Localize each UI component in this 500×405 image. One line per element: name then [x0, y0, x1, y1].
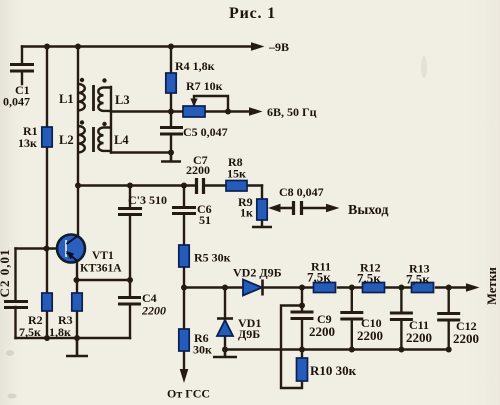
- arrow Vyhod output: [326, 204, 340, 213]
- capacitor C5 0,047 plates: [160, 128, 183, 135]
- node mid rail / C6: [181, 183, 187, 189]
- svg-text:2200: 2200: [453, 331, 479, 346]
- wire R13 to output arrow: [436, 286, 467, 288]
- svg-text:VT1: VT1: [92, 250, 114, 262]
- wire bottom-left rail: [16, 337, 131, 339]
- svg-text:L1: L1: [59, 92, 74, 106]
- wire VD2 to R11: [263, 286, 313, 288]
- arrow 6V 50Hz: [249, 107, 263, 116]
- ground at VD1: [213, 350, 237, 358]
- svg-text:Рис. 1: Рис. 1: [229, 5, 276, 22]
- wire C10 column: [351, 288, 353, 350]
- svg-text:13к: 13к: [18, 136, 37, 150]
- svg-text:R7 10к: R7 10к: [186, 79, 223, 93]
- resistor R2: [42, 293, 52, 311]
- node rail / C9-R10: [299, 347, 305, 353]
- svg-text:7,5к: 7,5к: [19, 325, 41, 339]
- node top rail / primary spine: [75, 44, 81, 50]
- svg-text:–9В: –9В: [268, 40, 289, 54]
- svg-text:С2 0,01: С2 0,01: [0, 249, 12, 298]
- svg-text:0,047: 0,047: [3, 95, 30, 109]
- wire L4 bottom to C5: [111, 151, 171, 153]
- svg-text:L2: L2: [59, 133, 74, 147]
- node bottom rail / R2: [44, 335, 50, 341]
- svg-text:2200: 2200: [141, 304, 166, 318]
- scan speck: [421, 56, 427, 78]
- svg-text:Метки: Метки: [485, 267, 499, 305]
- inductor L3 winding: [98, 88, 111, 111]
- capacitor C1 0,047 plates: [10, 65, 34, 72]
- transformer core lower: [92, 127, 95, 152]
- capacitor C6 51 plates: [172, 208, 196, 214]
- wire collector to C4 node: [76, 279, 130, 281]
- svg-text:R5 30к: R5 30к: [194, 251, 231, 265]
- wire base lead: [16, 247, 58, 249]
- node mid rail / C'3: [127, 183, 133, 189]
- capacitor C12 2200 plates: [437, 314, 460, 321]
- svg-text:VD2 Д9Б: VD2 Д9Б: [233, 266, 282, 280]
- resistor R1: [42, 127, 52, 147]
- node tap wire / R7 wiper: [225, 109, 231, 115]
- wire tap to 6V output: [111, 110, 250, 112]
- wire C12 column: [448, 288, 450, 350]
- svg-text:7,5к: 7,5к: [307, 270, 331, 285]
- inductor L1 winding: [78, 84, 85, 110]
- resistor R5: [179, 245, 189, 267]
- svg-text:С5 0,047: С5 0,047: [183, 125, 228, 139]
- resistor R11: [314, 283, 336, 293]
- capacitor C9 2200 plates: [291, 312, 314, 319]
- wire R11 to R12: [338, 286, 362, 288]
- svg-text:КТ361А: КТ361А: [80, 263, 122, 275]
- wire R10 loop: [281, 306, 302, 389]
- wire R9 wiper to C8: [280, 207, 327, 209]
- resistor R6: [179, 329, 189, 351]
- wire collector lead: [76, 261, 78, 280]
- node top rail / R4: [168, 44, 174, 50]
- wire C'3 column: [129, 186, 131, 281]
- node collector / R3: [74, 277, 80, 283]
- svg-text:7,5к: 7,5к: [357, 271, 381, 286]
- node tap wire / R4-C5: [168, 109, 174, 115]
- capacitor C8 0,047 plates (series): [294, 201, 302, 215]
- resistor R4: [166, 73, 176, 93]
- svg-text:R10 30к: R10 30к: [310, 363, 357, 378]
- capacitor C10 2200 plates: [340, 313, 363, 320]
- svg-text:L4: L4: [114, 133, 129, 147]
- svg-text:6В, 50 Гц: 6В, 50 Гц: [267, 105, 317, 119]
- wire R12 to R13: [386, 286, 411, 288]
- wire L3-L4 secondary spine: [110, 87, 112, 153]
- node C11 top: [398, 285, 404, 291]
- node R5-R6-VD2: [181, 285, 187, 291]
- svg-text:7,5к: 7,5к: [406, 272, 430, 287]
- ground at R9: [252, 226, 272, 229]
- wire VD1 column: [224, 288, 226, 350]
- node rail / C12: [446, 347, 452, 353]
- wire C9 column: [301, 288, 303, 350]
- svg-text:Выход: Выход: [348, 203, 388, 218]
- node base / R1-R2: [44, 246, 50, 252]
- resistor R3: [72, 293, 82, 311]
- arrow -9V: [251, 42, 265, 51]
- inductor L4 winding: [98, 128, 111, 151]
- wire C7 to R8: [205, 184, 262, 186]
- node bottom rail / R3 ground: [74, 335, 80, 341]
- node C5-L4 ground: [168, 150, 174, 156]
- resistor R10: [297, 358, 308, 381]
- wire R8 corner down to R9: [261, 186, 263, 200]
- phase dot L1: [80, 78, 84, 82]
- svg-text:2200: 2200: [309, 324, 335, 339]
- svg-text:1,8к: 1,8к: [49, 325, 71, 339]
- svg-text:2200: 2200: [186, 163, 210, 177]
- capacitor C7 2200 plates (series): [197, 178, 204, 194]
- wire top rail: [22, 45, 252, 47]
- wire C1 column: [21, 47, 23, 85]
- node collector wire / C'3-C4: [127, 277, 133, 283]
- wire C5 column: [170, 112, 172, 153]
- node C12 top: [446, 285, 452, 291]
- svg-text:R4 1,8к: R4 1,8к: [175, 59, 215, 73]
- node C10 top: [349, 285, 355, 291]
- node top rail / R1: [44, 44, 50, 50]
- resistor R7 (trimmer): [183, 106, 205, 117]
- scan speck: [8, 394, 17, 399]
- phase dot L4: [102, 122, 106, 126]
- capacitor C4 2200 plates: [118, 298, 141, 305]
- wire C2 column: [14, 249, 16, 339]
- diode VD1: [217, 319, 233, 337]
- svg-text:15к: 15к: [227, 167, 246, 181]
- scan speck: [6, 350, 14, 356]
- node VD1 branch: [222, 285, 228, 291]
- arrow Ot GSS (down): [180, 369, 189, 383]
- svg-text:Д9Б: Д9Б: [238, 327, 260, 341]
- resistor R12: [363, 283, 385, 293]
- arrow Metki: [466, 283, 480, 292]
- capacitor C11 2200 plates: [390, 313, 413, 320]
- wire R3 column: [76, 280, 78, 338]
- ground at R3 (bottom-left): [66, 338, 88, 356]
- svg-text:От ГСС: От ГСС: [167, 387, 210, 401]
- svg-text:С'3 510: С'3 510: [128, 193, 167, 207]
- capacitor C'3 510 plates: [118, 209, 142, 215]
- trimmer R7 wiper arrowhead: [190, 99, 197, 107]
- phase dot L3: [102, 78, 106, 82]
- svg-text:L3: L3: [115, 93, 130, 107]
- svg-text:С8 0,047: С8 0,047: [279, 185, 324, 199]
- wire bottom-right rail: [225, 348, 449, 350]
- transformer core upper: [92, 85, 95, 111]
- wire transformer primary spine: [77, 47, 79, 237]
- wire C4 column: [129, 280, 131, 338]
- transistor VT1 KT361A: [57, 235, 85, 263]
- wire mid rail to C7: [78, 184, 195, 186]
- node rail / C10: [349, 347, 355, 353]
- phase dot L2: [80, 120, 84, 124]
- resistor R9 (trimmer): [257, 199, 267, 220]
- node mid rail / spine: [75, 183, 81, 189]
- wire R9 bottom stub: [261, 220, 263, 226]
- capacitor C2 0,01 plates: [4, 302, 28, 308]
- wire node to VD2: [184, 286, 243, 288]
- node rail / C11: [398, 347, 404, 353]
- node rail / VD1: [222, 347, 228, 353]
- wire C6-R5-R6 column: [183, 186, 185, 371]
- svg-text:51: 51: [199, 213, 211, 227]
- node C9 top: [299, 285, 305, 291]
- svg-text:1к: 1к: [240, 206, 253, 220]
- wire C11 column: [400, 288, 402, 350]
- trimmer R9 wiper arrowhead: [268, 204, 281, 212]
- svg-text:30к: 30к: [193, 343, 212, 357]
- svg-text:2200: 2200: [406, 330, 432, 345]
- diode VD2: [243, 280, 263, 296]
- wire R4 column: [170, 47, 172, 112]
- svg-text:2200: 2200: [357, 328, 383, 343]
- inductor L2 winding: [78, 126, 85, 152]
- resistor R13: [412, 283, 434, 293]
- ground at C5/L4: [161, 153, 181, 162]
- wire R1-R2 column: [46, 47, 48, 339]
- node R10 tap: [299, 303, 305, 309]
- resistor R8: [226, 181, 247, 192]
- wire R7 wiper link: [194, 96, 228, 112]
